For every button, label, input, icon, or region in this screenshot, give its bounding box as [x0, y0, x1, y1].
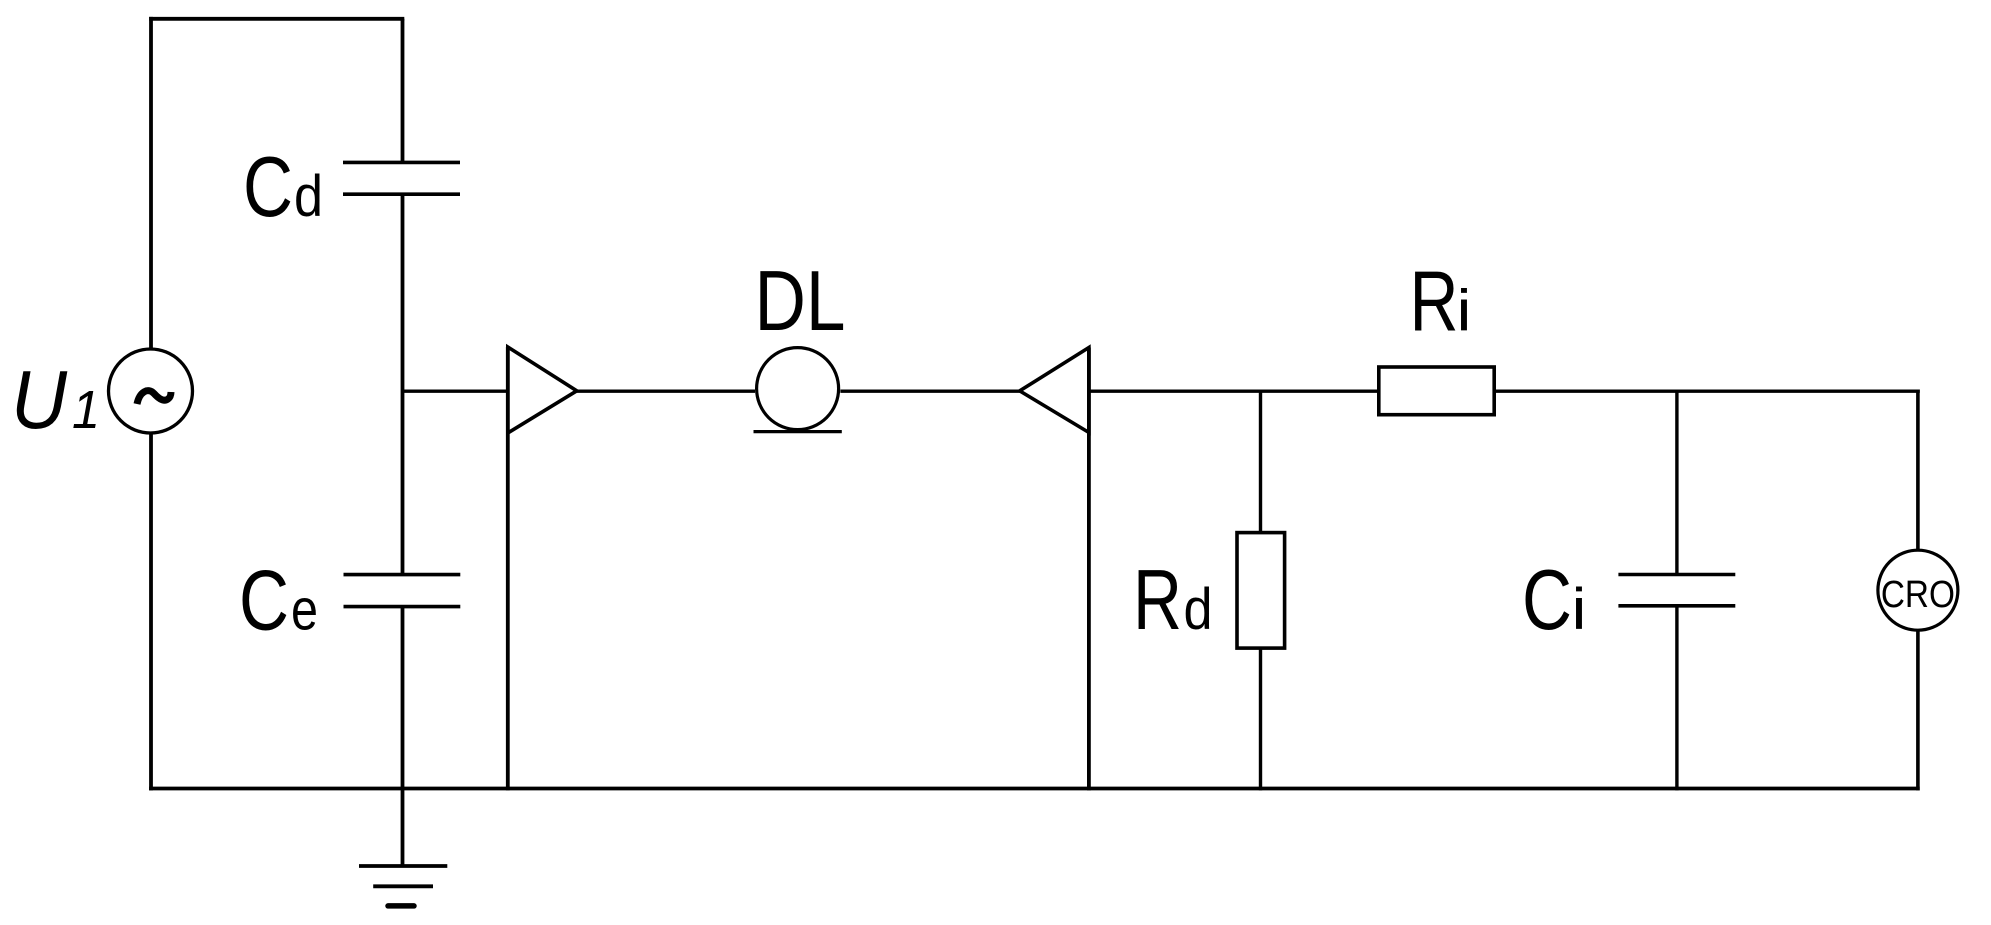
voltage source U1 circle: [109, 349, 193, 433]
svg-text:CRO: CRO: [1881, 574, 1955, 616]
amplifier triangle 1 (right-pointing): [508, 347, 577, 433]
delay line DL circle: [757, 348, 839, 430]
wire right vertical lower: [1916, 631, 1920, 790]
wire amp2 to Ri: [1089, 390, 1379, 393]
wire Ce bottom through rail to ground: [401, 607, 405, 866]
wire Cd bottom to Ce top: [401, 194, 405, 574]
wire top horizontal: [149, 17, 404, 21]
capacitor Cd: [343, 162, 460, 194]
svg-text:C: C: [239, 554, 289, 649]
svg-text:e: e: [291, 578, 318, 643]
resistor Rd: [1237, 533, 1285, 649]
svg-text:d: d: [294, 164, 323, 229]
svg-text:R: R: [1410, 255, 1459, 350]
oscilloscope CRO circle: [1878, 550, 1958, 630]
wire node A to amp1: [403, 390, 508, 393]
wire Ri to right edge: [1494, 390, 1920, 393]
svg-text:i: i: [1457, 279, 1472, 344]
wire amp2 vertical to bottom rail: [1087, 348, 1091, 791]
wire Ci top lead: [1675, 391, 1678, 574]
svg-text:1: 1: [72, 380, 100, 440]
wire amp1 vertical to bottom rail: [506, 347, 510, 790]
wire Rd top lead: [1259, 391, 1262, 532]
svg-text:R: R: [1133, 553, 1182, 648]
capacitor Ce: [344, 575, 461, 607]
svg-text:U: U: [11, 353, 68, 446]
wire Ci bottom lead: [1675, 606, 1678, 791]
wire Rd bottom lead: [1259, 648, 1262, 790]
svg-text:C: C: [243, 140, 293, 235]
wire right vertical upper: [1916, 390, 1920, 551]
svg-text:DL: DL: [755, 254, 846, 349]
svg-text:C: C: [1522, 553, 1572, 648]
wire Cd top lead: [401, 19, 405, 163]
wire DL to amp2: [840, 390, 1020, 393]
resistor Ri: [1379, 367, 1494, 415]
ground: [359, 866, 447, 906]
amplifier triangle 2 (left-pointing): [1020, 348, 1089, 433]
wire bottom rail: [149, 787, 1920, 791]
svg-text:i: i: [1572, 577, 1587, 642]
svg-text:d: d: [1184, 577, 1213, 642]
voltage source U1 sine tilde: [137, 391, 171, 404]
wire left vertical upper: [149, 17, 153, 350]
delay line DL underline: [754, 430, 842, 433]
wire amp1 to DL: [577, 390, 755, 393]
capacitor Ci: [1618, 575, 1735, 606]
wire left vertical lower: [149, 432, 153, 790]
